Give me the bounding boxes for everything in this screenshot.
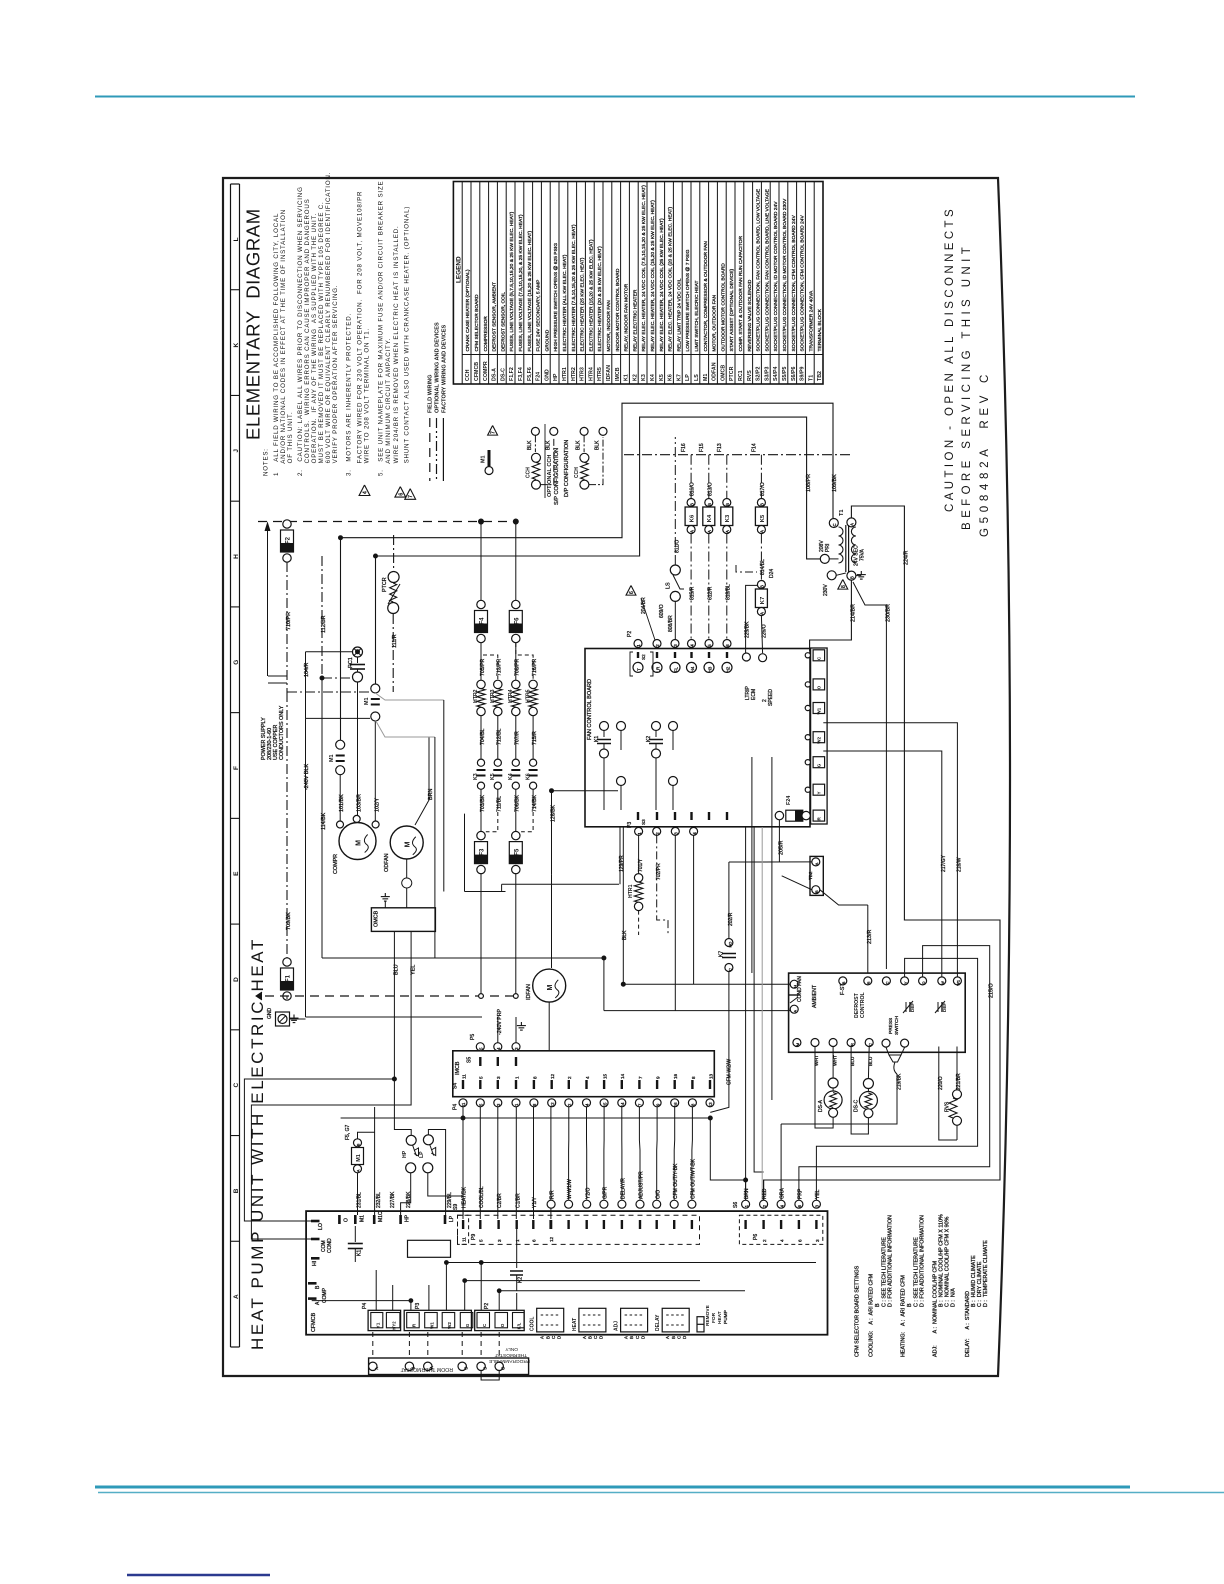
svg-text:LR: LR: [655, 666, 660, 673]
P9 dashed outline: [458, 1215, 700, 1244]
svg-text:A: A: [624, 1336, 629, 1339]
note triangle 6: [395, 487, 406, 498]
svg-text:CCH: CCH: [465, 369, 471, 381]
svg-text:6: 6: [398, 493, 404, 496]
svg-text:HTR3: HTR3: [580, 367, 586, 381]
svg-text:TERMINAL BLOCK: TERMINAL BLOCK: [817, 308, 823, 351]
svg-text:F24: F24: [536, 372, 542, 381]
power supply arrow: [267, 530, 269, 676]
svg-text:RELAY ELECTRIC HEATER: RELAY ELECTRIC HEATER: [632, 289, 638, 351]
svg-text:SWITCH: SWITCH: [894, 1016, 900, 1035]
defrost inner wires: [816, 958, 977, 1200]
transformer T1: [829, 519, 838, 528]
relay contact K4: [512, 759, 519, 766]
wire 128 to IDFAN: [551, 874, 553, 968]
wire 808/BR: [674, 601, 676, 640]
svg-text:A: A: [357, 1169, 361, 1172]
svg-text:609/O: 609/O: [659, 604, 665, 618]
imcb ground: [515, 1017, 517, 1043]
svg-text:FUSES, LINE VOLTAGE (5,7.5,10,: FUSES, LINE VOLTAGE (5,7.5,10,15,20 & 25…: [509, 211, 515, 351]
svg-text:219/BK: 219/BK: [897, 1073, 903, 1090]
OMCB ground: [384, 901, 386, 908]
fan board input circles: [633, 662, 643, 672]
svg-text:K5: K5: [659, 374, 665, 381]
wire K7 to CFM W2/W: [710, 972, 729, 1113]
svg-text:A: A: [707, 530, 712, 533]
svg-text:CFM OUT/WT-BK: CFM OUT/WT-BK: [691, 1158, 697, 1199]
svg-text:M1: M1: [329, 755, 335, 763]
svg-text:K5: K5: [760, 514, 766, 522]
wire 109/BK route: [341, 403, 834, 740]
svg-text:75VA: 75VA: [860, 548, 866, 561]
svg-text:S5/P5: S5/P5: [782, 367, 788, 381]
svg-text:7: 7: [491, 431, 497, 434]
svg-text:12: 12: [550, 1073, 555, 1079]
svg-text:O: O: [343, 1218, 349, 1222]
svg-text:S9/P9: S9/P9: [800, 367, 806, 381]
defrost control board: [789, 973, 966, 1052]
svg-text:CONTACTOR, COMPRESSOR & OUTDOO: CONTACTOR, COMPRESSOR & OUTDOOR FAN: [703, 241, 709, 352]
svg-text:709/BK: 709/BK: [286, 912, 292, 930]
svg-text:W: W: [941, 981, 945, 985]
wire 101/BK: [339, 775, 341, 821]
svg-text:SOCKET/PLUG CONNECTION, CFM CO: SOCKET/PLUG CONNECTION, CFM CONTROL BOAR…: [791, 215, 797, 352]
svg-text:C: C: [233, 1083, 240, 1088]
wire TB2 B diagonal: [782, 876, 812, 890]
svg-text:CFMCB: CFMCB: [474, 362, 480, 381]
svg-text:D : FOR ADDITIONAL INFORMATION: D : FOR ADDITIONAL INFORMATION: [888, 1215, 894, 1307]
svg-text:D24: D24: [769, 569, 775, 578]
svg-text:SPEED: SPEED: [768, 689, 774, 706]
svg-text:G508482A REV C: G508482A REV C: [979, 370, 991, 537]
wire 129/PR: [619, 827, 621, 885]
def switch 1: [905, 1002, 907, 1012]
svg-text:F14: F14: [751, 443, 757, 452]
limit switch LS: [670, 565, 680, 575]
connector S3/P3 pins: [637, 812, 639, 820]
svg-text:13: 13: [708, 1073, 713, 1079]
svg-text:ODFAN: ODFAN: [712, 362, 718, 381]
svg-text:S2: S2: [641, 654, 646, 660]
junction dots lower dashed: [479, 994, 484, 999]
svg-text:K7: K7: [719, 951, 725, 957]
svg-text:T1: T1: [808, 375, 814, 381]
note triangle 7: [405, 489, 416, 500]
svg-text:101/BK: 101/BK: [339, 794, 345, 812]
svg-text:S6/P6: S6/P6: [791, 367, 797, 381]
svg-text:C: C: [886, 981, 890, 984]
svg-text:K6: K6: [690, 514, 696, 522]
svg-text:FL: FL: [673, 666, 678, 672]
svg-text:K7: K7: [676, 374, 682, 381]
svg-text:W2: W2: [817, 737, 822, 744]
svg-text:C: C: [728, 968, 732, 971]
cfmcb pin ticks row: [462, 1220, 464, 1229]
svg-text:A: A: [850, 523, 855, 526]
svg-text:DEF: DEF: [910, 1003, 915, 1012]
svg-text:103/BR: 103/BR: [357, 794, 363, 812]
svg-text:COMP. START & OUTDOOR FAN RUN: COMP. START & OUTDOOR FAN RUN CAPACITOR: [738, 236, 744, 352]
svg-text:BLK: BLK: [622, 930, 628, 940]
svg-text:F15: F15: [699, 443, 705, 452]
wire 103/BR: [357, 682, 359, 815]
svg-text:W1: W1: [957, 980, 961, 986]
svg-text:HTR5: HTR5: [597, 367, 603, 381]
relay K1 capacitor on cfmcb: [354, 1226, 356, 1242]
svg-text:231/BL: 231/BL: [357, 1192, 363, 1208]
svg-text:112/BR: 112/BR: [321, 615, 327, 633]
svg-text:230/BR: 230/BR: [886, 604, 892, 622]
svg-text:713/PR: 713/PR: [497, 658, 503, 676]
svg-text:O: O: [817, 685, 822, 689]
svg-text:Y2/O: Y2/O: [585, 1187, 591, 1199]
zone reference band left edge: [230, 184, 232, 1347]
svg-text:4: 4: [780, 1239, 785, 1242]
svg-text:COOL: COOL: [530, 1317, 536, 1331]
svg-text:M: M: [405, 841, 412, 847]
svg-text:FUSES, LINE VOLTAGE (15,20 & 2: FUSES, LINE VOLTAGE (15,20 & 25 KW ELEC.…: [527, 230, 533, 351]
svg-text:A: A: [665, 1336, 670, 1339]
svg-text:D: D: [599, 1336, 604, 1339]
wire 226/O K7 to 2SPEED: [761, 616, 762, 654]
svg-text:RC1: RC1: [738, 370, 744, 381]
svg-text:P6: P6: [753, 1234, 759, 1240]
drawing border frame: [223, 178, 1010, 1376]
svg-text:HP: HP: [405, 1214, 411, 1222]
svg-text:216/W: 216/W: [957, 857, 963, 872]
svg-text:LEGEND: LEGEND: [456, 256, 463, 283]
svg-text:818/BL: 818/BL: [725, 584, 731, 600]
svg-text:K1: K1: [357, 1250, 363, 1256]
relay coil K3: [726, 455, 728, 498]
svg-text:K2: K2: [518, 1277, 524, 1283]
svg-text:AND/OR NATIONAL CODES IN EFFEC: AND/OR NATIONAL CODES IN EFFECT AT THE T…: [280, 209, 287, 476]
wire LP bottom to S9: [428, 1173, 463, 1215]
svg-text:811/O: 811/O: [675, 540, 681, 553]
svg-text:16: 16: [673, 1073, 678, 1079]
svg-text:HEAT: HEAT: [572, 1318, 578, 1331]
svg-text:CFMCB: CFMCB: [311, 1312, 317, 1332]
cfm selector board CFMCB: [306, 1211, 827, 1335]
svg-text:K2: K2: [646, 736, 652, 742]
svg-text:9: 9: [656, 1076, 661, 1079]
svg-text:1: 1: [515, 1239, 520, 1242]
defrost board top pins: [839, 977, 847, 985]
svg-text:230V: 230V: [823, 584, 829, 596]
svg-text:DEFROST SENSOR, AMBIENT: DEFROST SENSOR, AMBIENT: [492, 282, 498, 351]
fuse F1: [283, 958, 291, 966]
svg-text:CFM SELECTOR BOARD SETTINGS: CFM SELECTOR BOARD SETTINGS: [855, 1265, 861, 1357]
indoor motor control board IMCB: [453, 1051, 715, 1097]
fuse F2: [283, 520, 291, 528]
bottom connector P4 plug: [368, 1310, 401, 1330]
svg-text:114/BK: 114/BK: [321, 812, 327, 830]
svg-text:MOTOR, INDOOR FAN: MOTOR, INDOOR FAN: [606, 300, 612, 352]
svg-text:B: B: [545, 1336, 550, 1339]
svg-text:IDFAN: IDFAN: [526, 984, 532, 1000]
svg-text:CFM OUT/Y-BK: CFM OUT/Y-BK: [673, 1163, 679, 1199]
svg-text:11: 11: [461, 1102, 466, 1107]
outdoor fan motor ODFAN: [390, 826, 423, 859]
svg-text:W-W1/W: W-W1/W: [567, 1179, 573, 1199]
gray bus vertical: [761, 827, 763, 1204]
svg-text:VERIFY PROPER OPERATION AFTER: VERIFY PROPER OPERATION AFTER SERVICING.: [332, 285, 339, 476]
svg-text:YEL: YEL: [815, 1189, 821, 1199]
svg-text:R: R: [850, 1043, 854, 1046]
svg-text:Y/Y2: Y/Y2: [392, 1321, 397, 1331]
svg-text:REVERSING VALVE SOLENOID: REVERSING VALVE SOLENOID: [747, 279, 753, 351]
svg-text:RELAY ELEC. HEATER, 24 VDC COI: RELAY ELEC. HEATER, 24 VDC COIL (20 & 25…: [668, 207, 674, 352]
svg-text:A: A: [760, 612, 765, 615]
svg-text:D: D: [640, 1336, 645, 1339]
wire 228/BK: [401, 1173, 411, 1215]
svg-text:D : FOR ADDITIONAL INFORMATION: D : FOR ADDITIONAL INFORMATION: [920, 1215, 926, 1307]
svg-text:M1: M1: [356, 1154, 362, 1162]
dip switch blocks: [537, 1308, 564, 1332]
svg-text:SHUNT CONTACT ALSO USED WITH C: SHUNT CONTACT ALSO USED WITH CRANKCASE H…: [404, 206, 411, 476]
thermostat jumper wire: [481, 1371, 499, 1380]
svg-text:229/BL: 229/BL: [447, 1192, 453, 1208]
high pressure switch HP: [406, 1135, 416, 1145]
svg-text:O: O: [500, 1323, 505, 1327]
svg-text:G: G: [817, 763, 822, 767]
svg-text:D : N/A: D : N/A: [951, 1288, 957, 1307]
svg-text:P2: P2: [484, 1303, 490, 1309]
svg-text:MUST BE REMOVED IT MUST BE REP: MUST BE REMOVED IT MUST BE REPLACED WITH…: [318, 201, 325, 476]
svg-text:LOW PRESSURE SWITCH OPENS @ 7: LOW PRESSURE SWITCH OPENS @ 7 PSIG: [685, 249, 691, 351]
svg-text:7: 7: [638, 1076, 643, 1079]
wire BLK: [622, 827, 624, 984]
svg-text:COOLING: A : ARI RATED CFM: COOLING: A : ARI RATED CFM: [869, 1273, 875, 1357]
svg-text:B: B: [689, 503, 694, 506]
svg-text:232/BL: 232/BL: [376, 1192, 382, 1208]
svg-text:D: D: [233, 977, 240, 982]
svg-text:P3: P3: [415, 1303, 421, 1309]
power supply label lines: [268, 675, 287, 677]
svg-text:LP: LP: [419, 1151, 425, 1158]
svg-text:GROUND: GROUND: [544, 329, 550, 351]
remove for heat pump jumper: [697, 1317, 704, 1332]
svg-text:K3: K3: [641, 374, 647, 381]
svg-text:3: 3: [497, 1239, 502, 1242]
svg-text:PUMP: PUMP: [723, 1310, 729, 1324]
svg-text:C: C: [868, 1043, 872, 1046]
svg-text:D: D: [557, 1336, 562, 1339]
svg-text:CFM SELECTOR BOARD: CFM SELECTOR BOARD: [474, 294, 480, 351]
svg-text:NOTES:: NOTES:: [262, 448, 269, 476]
svg-text:L: L: [233, 237, 240, 241]
svg-text:LP: LP: [685, 374, 691, 381]
svg-text:OUTDOOR MOTOR CONTROL BOARD: OUTDOOR MOTOR CONTROL BOARD: [720, 263, 726, 352]
svg-text:205/R: 205/R: [778, 841, 784, 855]
svg-text:S9: S9: [453, 1204, 459, 1210]
svg-text:6: 6: [532, 1239, 537, 1242]
svg-text:14: 14: [620, 1102, 625, 1107]
svg-text:129/PR: 129/PR: [619, 855, 625, 872]
wire 128/BK: [551, 791, 553, 875]
svg-text:111/R: 111/R: [392, 634, 398, 648]
svg-text:FOR: FOR: [711, 1312, 717, 1323]
svg-text:LO: LO: [318, 1223, 324, 1230]
svg-text:G/PR: G/PR: [603, 1186, 609, 1199]
svg-text:S6: S6: [733, 1202, 739, 1208]
svg-text:B: B: [814, 890, 819, 893]
svg-text:GND: GND: [544, 369, 550, 381]
svg-text:MOTOR, OUTDOOR FAN: MOTOR, OUTDOOR FAN: [712, 294, 718, 351]
svg-text:HTR4: HTR4: [588, 367, 594, 381]
svg-text:F24: F24: [786, 796, 792, 805]
svg-text:GND: GND: [267, 1008, 273, 1020]
wires P4 to CFMCB risers: [568, 1107, 570, 1200]
svg-text:228/BK: 228/BK: [406, 1191, 412, 1208]
wire 702/PR dash-dot: [657, 835, 668, 935]
svg-text:HTR2: HTR2: [571, 367, 577, 381]
svg-text:128/BK: 128/BK: [551, 804, 557, 822]
svg-text:RVS: RVS: [747, 370, 753, 381]
svg-text:3: 3: [815, 1239, 820, 1242]
svg-text:SOCKET/PLUG CONNECTION, FAN CO: SOCKET/PLUG CONNECTION, FAN CONTROL BOAR…: [756, 188, 762, 351]
svg-text:Y: Y: [817, 791, 822, 794]
svg-text:K4: K4: [707, 514, 713, 522]
svg-text:P4: P4: [452, 1104, 458, 1110]
svg-text:S5: S5: [467, 1057, 473, 1063]
wire 232/BL: [374, 1107, 376, 1215]
junction dots: [393, 1077, 397, 1081]
svg-text:4: 4: [363, 491, 369, 494]
wire 112/BR dash-dot: [321, 556, 323, 678]
svg-text:K2: K2: [632, 374, 638, 381]
svg-text:-240V BLK: -240V BLK: [304, 764, 310, 790]
svg-text:CAUTION - OPEN ALL DISCONNECTS: CAUTION - OPEN ALL DISCONNECTS: [944, 206, 956, 512]
svg-text:RELAY LIMIT TRIP 24 VDC COIL: RELAY LIMIT TRIP 24 VDC COIL: [676, 278, 682, 351]
svg-text:HEAT/BK: HEAT/BK: [462, 1186, 468, 1208]
wire LP top 229/BL: [428, 1130, 445, 1216]
wire BLU from OMCB: [244, 931, 394, 1221]
svg-text:DS-A: DS-A: [492, 368, 498, 381]
svg-text:702/PR: 702/PR: [656, 863, 662, 880]
svg-text:2: 2: [762, 1239, 767, 1242]
svg-text:CONTROLS. WIRING ERRORS CAN C: CONTROLS. WIRING ERRORS CAN CAUSE IMPROP…: [304, 198, 311, 476]
fuse F3: [480, 789, 482, 831]
svg-text:ROOM THERMOSTAT: ROOM THERMOSTAT: [400, 1366, 453, 1372]
svg-text:W2: W2: [447, 1322, 452, 1329]
svg-text:202/R: 202/R: [728, 912, 734, 926]
wire 104/R: [305, 652, 307, 719]
svg-text:11: 11: [462, 1237, 467, 1242]
svg-text:FUSE 24V SECONDARY, 5 AMP: FUSE 24V SECONDARY, 5 AMP: [536, 280, 542, 352]
svg-text:F: F: [233, 766, 240, 770]
svg-text:O/O: O/O: [655, 1190, 661, 1199]
switch M1 F5 G7: [354, 1139, 362, 1147]
wire W route: [823, 751, 942, 978]
thermostat dashed drops: [372, 1332, 374, 1356]
svg-text:M: M: [796, 1043, 800, 1046]
svg-text:-240V PRP: -240V PRP: [497, 1009, 503, 1035]
svg-text:FACTORY WIRING AND DEVICES: FACTORY WIRING AND DEVICES: [441, 324, 447, 413]
svg-text:H2: H2: [725, 666, 730, 672]
svg-text:O: O: [922, 981, 926, 984]
svg-text:RELAY ELEC. HEATER, 24 VDC COI: RELAY ELEC. HEATER, 24 VDC COIL (25 KW E…: [659, 218, 665, 352]
relay contact K6: [530, 759, 537, 766]
svg-text:IMCB: IMCB: [615, 367, 621, 381]
svg-text:TB2: TB2: [817, 371, 823, 381]
svg-text:TB2: TB2: [808, 871, 813, 880]
svg-text:B: B: [233, 1188, 240, 1193]
svg-text:227/BK: 227/BK: [390, 1191, 396, 1208]
svg-text:BLK: BLK: [527, 440, 533, 450]
dashed optional feed line lower: [265, 995, 516, 997]
bottom connector P3 plug: [404, 1310, 471, 1330]
wire to cond fan H: [623, 983, 794, 985]
svg-text:ADJ: ADJ: [614, 1321, 620, 1331]
svg-text:W1: W1: [817, 707, 822, 714]
svg-text:BLK: BLK: [595, 440, 601, 450]
wire 224/R route: [764, 506, 1000, 1200]
svg-text:SOCKET/PLUG CONNECTION, FAN CO: SOCKET/PLUG CONNECTION, FAN CONTROL BOAR…: [764, 188, 770, 351]
svg-text:OMCB: OMCB: [720, 365, 726, 381]
svg-text:IDFAN: IDFAN: [606, 365, 612, 381]
wire 102/Y: [374, 721, 376, 821]
svg-text:WIRE 204/BR IS REMOVED WHEN EL: WIRE 204/BR IS REMOVED WHEN ELECTRIC HEA…: [393, 225, 400, 476]
wire BRN to ODFAN: [415, 737, 429, 825]
svg-text:HTR3: HTR3: [490, 689, 496, 703]
dash-dot jog near K7: [736, 565, 757, 572]
bottom navy rule: [127, 1574, 270, 1576]
svg-text:600 VOLT WIRE OR EQUIVALENT CL: 600 VOLT WIRE OR EQUIVALENT CLEARLY RENU…: [325, 172, 332, 476]
svg-text:ONLY: ONLY: [504, 1346, 518, 1352]
svg-text:Y1/Y: Y1/Y: [532, 1196, 538, 1208]
fan control board FANCB: [585, 649, 810, 827]
svg-text:CFM-W2/W: CFM-W2/W: [727, 1059, 733, 1085]
svg-text:K6: K6: [668, 374, 674, 381]
svg-text:F5: F5: [515, 848, 521, 856]
svg-text:D: D: [682, 1336, 687, 1339]
svg-text:DS-C: DS-C: [500, 368, 506, 381]
relay contact K5: [494, 759, 501, 766]
svg-text:BRN: BRN: [744, 1188, 750, 1199]
wires GRA RED: [780, 1124, 782, 1200]
svg-text:LIMIT SWITCH, ELECRIC HEAT: LIMIT SWITCH, ELECRIC HEAT: [694, 280, 700, 351]
svg-text:CCH: CCH: [574, 467, 580, 478]
svg-text:213/R: 213/R: [867, 930, 873, 944]
wire M1 B to bus: [358, 1132, 375, 1139]
svg-text:1: 1: [514, 1076, 519, 1079]
svg-text:HI: HI: [312, 1261, 318, 1266]
svg-text:THERMOSTAT: THERMOSTAT: [495, 1352, 527, 1358]
svg-text:5. SEE UNIT NAMEPLATE FOR MA: 5. SEE UNIT NAMEPLATE FOR MAXIMUM FUSE A…: [378, 181, 385, 476]
svg-text:OF THIS UNIT.: OF THIS UNIT.: [287, 412, 294, 476]
svg-text:HTR4: HTR4: [508, 689, 514, 703]
svg-text:5: 5: [479, 1239, 484, 1242]
gray aux wire T1: [375, 720, 435, 737]
indoor fan motor IDFAN: [533, 969, 566, 1002]
start assist PTCR: [393, 535, 395, 571]
svg-text:K: K: [233, 342, 240, 347]
svg-text:2. CAUTION: LABEL ALL WIRES: 2. CAUTION: LABEL ALL WIRES PRIOR TO DIS…: [297, 186, 304, 476]
ODFAN lead loop: [406, 859, 408, 878]
svg-text:HIGH PRESSURE SWITCH OPENS @ 6: HIGH PRESSURE SWITCH OPENS @ 625 PSIG: [553, 243, 559, 352]
svg-text:C1/BR: C1/BR: [515, 1193, 521, 1208]
wire HP top 227/BK: [394, 1079, 411, 1135]
svg-text:8: 8: [532, 1076, 537, 1079]
wire 240V BLK: [305, 718, 307, 1017]
wire bus 1118 horizontal: [341, 1118, 746, 1180]
note triangle 4: [359, 485, 370, 496]
fuse F6: [515, 524, 517, 601]
svg-text:15: 15: [602, 1102, 607, 1107]
svg-text:2: 2: [567, 1076, 572, 1079]
svg-text:B: B: [875, 1303, 881, 1307]
